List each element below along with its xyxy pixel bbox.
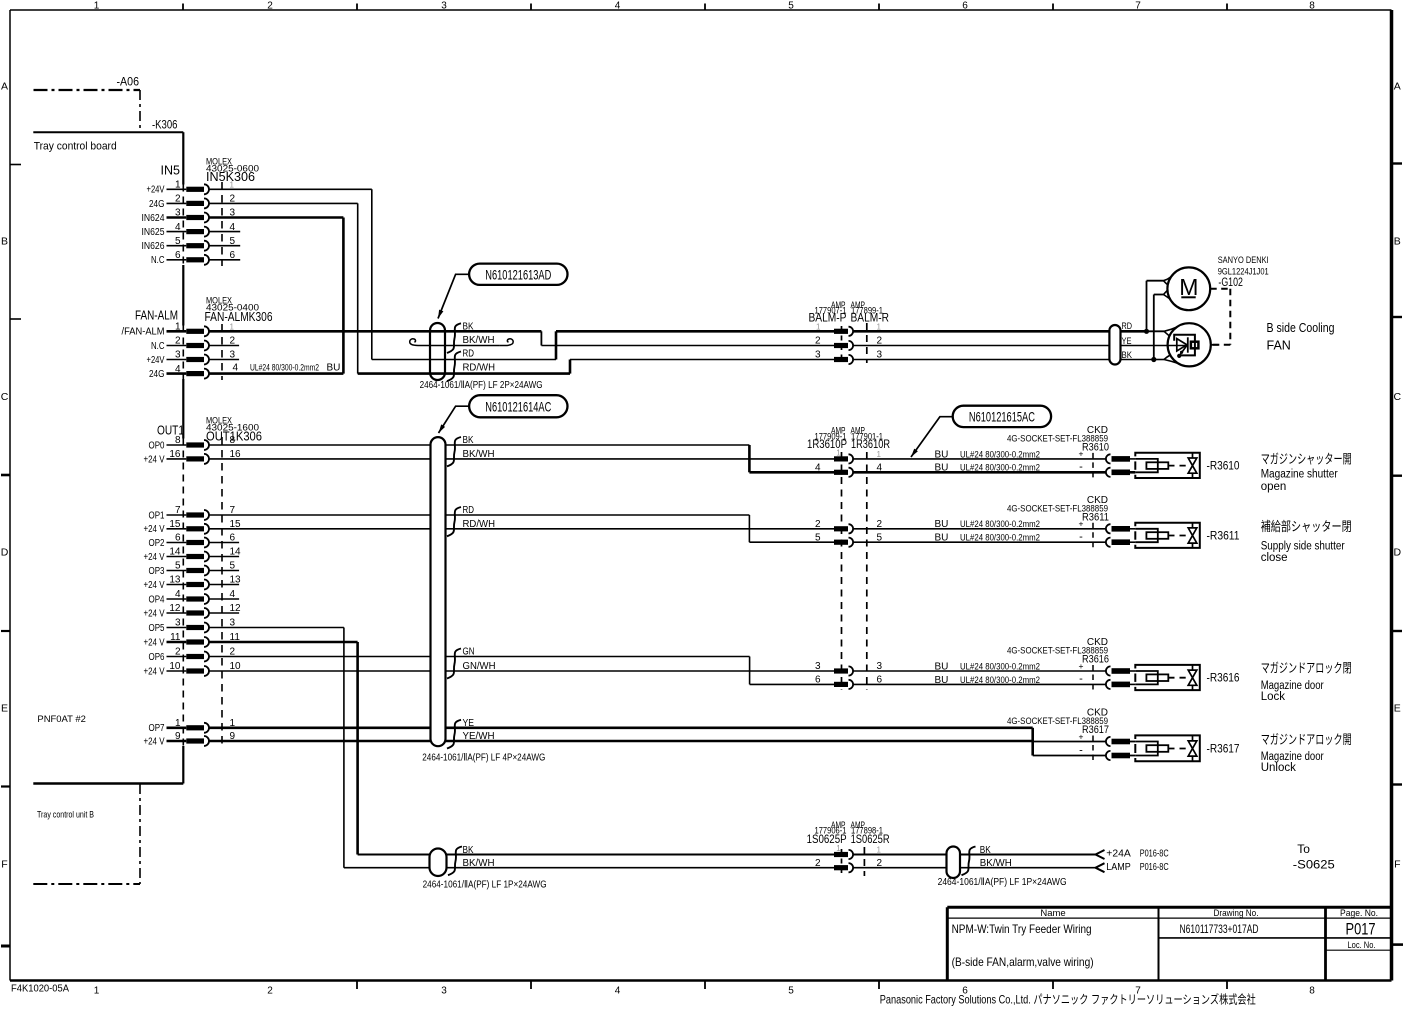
callout leader N610121615AC — [911, 417, 953, 457]
connector FAN-ALM pin 4 24G — [149, 364, 209, 380]
connector OUT1 pin 7 OP1 — [149, 505, 236, 521]
svg-text:-: - — [1079, 673, 1083, 685]
connector FAN-ALM title — [135, 309, 178, 323]
svg-text:+24V: +24V — [147, 355, 165, 366]
svg-text:2464-1061/ⅡA(PF) LF 2P×24AWG: 2464-1061/ⅡA(PF) LF 2P×24AWG — [420, 380, 543, 391]
svg-text:BU: BU — [935, 533, 949, 544]
svg-text:24G: 24G — [149, 199, 165, 210]
unit Tray control unit B boundary (dash-dot) — [33, 784, 140, 884]
connector OUT1K306 labels MOLEX 43025-1600 — [206, 415, 262, 443]
junction dot RD row — [1144, 329, 1149, 334]
wire IN624 from IN5 pin3 — [209, 218, 343, 374]
svg-text:FAN-ALM: FAN-ALM — [135, 309, 178, 323]
valve socket pin R3610 + — [1106, 454, 1135, 463]
label B side Cooling FAN — [1267, 321, 1335, 353]
svg-text:Lock: Lock — [1261, 691, 1286, 703]
svg-text:SANYO DENKI: SANYO DENKI — [1218, 255, 1269, 266]
connector OUT1 pin 8 OP0 — [149, 435, 236, 451]
connector BALM pin body dashes — [841, 326, 843, 362]
svg-text:Page. No.: Page. No. — [1340, 908, 1378, 919]
connector 1S0625 pin 2 — [815, 858, 883, 872]
callout bubble N610121615AC — [953, 406, 1051, 427]
wire color labels 4P cable — [463, 435, 496, 742]
svg-text:IN626: IN626 — [142, 241, 165, 252]
svg-text:P016-8C: P016-8C — [1140, 849, 1169, 860]
cable label 2464-1061 1P left — [423, 880, 547, 891]
label Tray control board — [34, 141, 117, 153]
valve socket pin R3617 + — [1106, 737, 1135, 746]
wire BK/WH to LAMP — [853, 867, 1096, 869]
wire pair mark 2P BK — [447, 323, 461, 353]
svg-text:F4K1020-05A: F4K1020-05A — [11, 984, 69, 995]
frame row letters left — [1, 81, 9, 871]
svg-text:1: 1 — [877, 846, 882, 855]
wire OP0 to R3610 — [209, 445, 834, 472]
wire 24G from IN5 pin2 — [209, 203, 358, 373]
title block Loc. No. — [1348, 940, 1376, 951]
title block headers — [1040, 908, 1378, 919]
svg-text:-S0625: -S0625 — [1293, 858, 1335, 872]
label -K306 — [152, 120, 178, 132]
svg-text:+24 V: +24 V — [144, 736, 165, 747]
svg-text:C: C — [1, 391, 9, 403]
wire R3616 - run — [853, 683, 1106, 685]
connector OUT1 pin 2 OP6 — [149, 647, 236, 663]
cable sheath oval 4P — [431, 437, 446, 746]
connector OUT1 title — [157, 424, 184, 438]
valve socket pin R3611 - — [1106, 538, 1135, 547]
label -R3617 — [1207, 743, 1240, 755]
connector OUT1 pin 1 OP7 — [149, 718, 236, 734]
svg-text:C: C — [1394, 391, 1402, 403]
svg-text:YE: YE — [1122, 336, 1132, 347]
label To -S0625 — [1293, 842, 1335, 872]
svg-text:FAN: FAN — [1267, 338, 1291, 352]
svg-text:-: - — [1079, 461, 1083, 473]
svg-text:8: 8 — [1309, 986, 1315, 997]
svg-text:6: 6 — [815, 675, 821, 686]
svg-text:+24 V: +24 V — [144, 524, 165, 535]
wire +24V10 to R3616 — [209, 670, 834, 672]
cable sheath oval 1P right — [947, 847, 961, 879]
svg-text:4: 4 — [615, 1, 621, 12]
svg-text:UL#24 80/300-0.2mm2: UL#24 80/300-0.2mm2 — [960, 519, 1040, 530]
svg-text:BALM-R: BALM-R — [851, 310, 890, 324]
svg-text:BU: BU — [935, 661, 949, 672]
svg-text:-G102: -G102 — [1218, 277, 1243, 289]
valve socket pin R3616 + — [1106, 666, 1135, 675]
connector IN5 pin 2 24G — [149, 194, 236, 210]
callout bubble N610121614AC — [469, 395, 567, 417]
frame column numbers bottom — [94, 986, 1316, 997]
title block frame — [947, 907, 1393, 980]
svg-text:-R3617: -R3617 — [1207, 743, 1240, 755]
svg-text:P017: P017 — [1346, 921, 1376, 939]
wire 24G RD/WH row — [358, 360, 834, 374]
title block page number P017 — [1346, 921, 1376, 939]
footer Panasonic Factory Solutions — [880, 992, 1256, 1007]
connector OUT1 pin 6 OP2 — [149, 533, 240, 549]
svg-text:-: - — [1079, 744, 1083, 756]
svg-text:Supply side shutter: Supply side shutter — [1261, 541, 1345, 553]
label Tray control unit B — [37, 810, 94, 821]
svg-text:マガジンドアロック閉: マガジンドアロック閉 — [1261, 661, 1352, 676]
wire pair mark 4P YE — [447, 720, 461, 749]
wire RD to fan — [853, 327, 1177, 336]
svg-text:4: 4 — [233, 363, 239, 374]
connector BALM pin 1 — [816, 323, 881, 336]
wire BK row to motor — [1154, 290, 1170, 359]
frame row ticks left — [1, 165, 21, 947]
wire BK to fan — [853, 355, 1178, 363]
connector 1R3610P 1R3610R labels AMP 177909-1 177901-1 — [807, 425, 890, 451]
fan sensor bar — [1187, 337, 1189, 352]
motor M circle -G102 — [1167, 267, 1210, 310]
wire YE to fan — [853, 345, 1187, 347]
wire OP6 to R3616 — [209, 657, 834, 685]
fan sensor circle — [1168, 323, 1211, 366]
svg-text:1: 1 — [230, 181, 235, 190]
cable label 2464-1061 4P — [422, 752, 545, 763]
title block name NPM-W Twin Try Feeder Wiring — [952, 922, 1092, 936]
label SANYO DENKI 9GL1224J1J01 -G102 — [1218, 255, 1269, 289]
svg-text:-K306: -K306 — [152, 120, 178, 132]
wire OP5 down to S0625 — [209, 628, 430, 868]
wire pair mark 1P right — [962, 847, 976, 876]
svg-text:E: E — [1, 703, 8, 715]
solenoid valve R3611 — [1135, 523, 1200, 548]
svg-text:YE: YE — [463, 718, 475, 729]
svg-text:3: 3 — [815, 661, 821, 672]
svg-text:Tray control board: Tray control board — [34, 141, 117, 153]
label -A06 — [117, 77, 140, 89]
svg-text:Panasonic Factory Solutions Co: Panasonic Factory Solutions Co.,Ltd. パナソ… — [880, 992, 1256, 1007]
fan sensor inner frame — [1174, 335, 1195, 356]
svg-text:BU: BU — [935, 463, 949, 474]
svg-text:Magazine shutter: Magazine shutter — [1261, 469, 1338, 481]
svg-text:3: 3 — [441, 986, 447, 997]
connector 1R3610 pin 1 — [834, 449, 882, 464]
svg-text:2464-1061/ⅡA(PF) LF 1P×24AWG: 2464-1061/ⅡA(PF) LF 1P×24AWG — [938, 877, 1067, 888]
svg-text:1: 1 — [816, 323, 821, 332]
connector 1S0625 pin 1 — [834, 844, 882, 859]
cable sheath oval 1P left — [430, 849, 447, 877]
svg-text:UL#24 80/300-0.2mm2: UL#24 80/300-0.2mm2 — [960, 449, 1040, 460]
frame column ticks top — [183, 4, 1227, 11]
title block drawing number N610117733+017AD — [1180, 922, 1259, 936]
motor M letter — [1179, 274, 1198, 300]
svg-text:BK/WH: BK/WH — [463, 335, 495, 346]
wire OP1 to R3611 — [209, 515, 834, 542]
svg-text:1: 1 — [94, 986, 100, 997]
solenoid valve R3617 — [1135, 735, 1200, 761]
fan sensor arrow contact — [1177, 339, 1187, 357]
svg-text:RD: RD — [463, 505, 475, 516]
svg-text:R3611: R3611 — [1082, 511, 1109, 523]
svg-text:BU: BU — [327, 363, 341, 374]
svg-text:OP2: OP2 — [149, 538, 165, 549]
svg-text:3: 3 — [815, 350, 821, 361]
solenoid valve R3616 — [1135, 665, 1200, 690]
connector OUT1 pin 16 +24 V — [144, 449, 242, 465]
labels valve R3616 wires — [935, 661, 1084, 686]
svg-text:B: B — [1394, 236, 1401, 248]
connector IN5 title — [161, 163, 181, 177]
fan sensor terminal square — [1191, 342, 1199, 349]
svg-text:LAMP: LAMP — [1106, 862, 1131, 873]
svg-text:1: 1 — [836, 844, 841, 853]
svg-text:RD/WH: RD/WH — [463, 519, 496, 530]
connector OUT1 pin 13 +24 V — [144, 575, 242, 591]
svg-text:+24 V: +24 V — [144, 454, 165, 465]
cable sheath oval fan — [1109, 325, 1120, 365]
wire pair mark 4P RD — [447, 507, 461, 536]
svg-text:UL#24 80/300-0.2mm2: UL#24 80/300-0.2mm2 — [250, 363, 319, 374]
svg-text:-: - — [1079, 531, 1083, 543]
svg-text:1: 1 — [94, 1, 100, 12]
svg-text:BALM-P: BALM-P — [809, 310, 847, 324]
wire color labels 1P left — [463, 845, 495, 869]
connector OUT1 body dashed boundary — [221, 437, 223, 747]
fan output stub dashed — [1211, 344, 1219, 346]
svg-text:+24 V: +24 V — [144, 608, 165, 619]
label 4 UL#24 80/300-0.2mm2 BU on FAN-ALM pin4 — [233, 363, 341, 374]
callout leader N610121614AC — [439, 406, 470, 433]
connector OUT1 pin 9 +24 V — [144, 731, 236, 747]
svg-text:1: 1 — [877, 450, 882, 459]
connector FAN-ALMK306 labels MOLEX 43025-0400 — [205, 295, 273, 324]
connector OUT1 pin 4 OP4 — [149, 589, 240, 605]
svg-text:UL#24 80/300-0.2mm2: UL#24 80/300-0.2mm2 — [960, 463, 1040, 474]
svg-text:1R3610P: 1R3610P — [807, 437, 847, 451]
svg-text:6: 6 — [962, 1, 968, 12]
wire R3616 + run — [853, 670, 1106, 672]
connector 1S0625P 1S0625R labels AMP 177906-1 177898-1 — [807, 820, 890, 846]
junction dot BK row — [1151, 357, 1156, 362]
svg-text:IN625: IN625 — [142, 227, 165, 238]
unit -A06 boundary (dash-dot) — [34, 90, 141, 132]
connector R3610 group body dashes — [841, 452, 843, 690]
svg-text:マガジンシャッター開: マガジンシャッター開 — [1261, 452, 1352, 467]
svg-text:9GL1224J1J01: 9GL1224J1J01 — [1218, 267, 1269, 278]
sheet code F4K1020-05A — [11, 984, 69, 995]
wire +24V9 to R3617 — [209, 740, 1106, 743]
svg-text:E: E — [1394, 703, 1401, 715]
svg-text:OP6: OP6 — [149, 652, 165, 663]
wire pair mark 4P BK — [447, 437, 461, 466]
title block subtitle B-side FAN alarm valve wiring — [952, 955, 1094, 969]
svg-text:RD/WH: RD/WH — [463, 362, 496, 373]
svg-text:N610121614AC: N610121614AC — [485, 398, 551, 414]
cable sheath oval 2P — [430, 323, 445, 380]
connector IN5K306 labels MOLEX 43025-0600 — [206, 156, 259, 184]
connector OUT1 pin 5 OP3 — [149, 561, 240, 577]
connector OUT1 pin 15 +24 V — [144, 519, 242, 535]
connector FAN-ALM pin 1 /FAN-ALM — [122, 322, 235, 338]
svg-text:close: close — [1261, 552, 1288, 564]
svg-text:Loc. No.: Loc. No. — [1348, 940, 1376, 951]
svg-text:4: 4 — [815, 463, 821, 474]
svg-text:A: A — [1, 81, 8, 93]
svg-text:24G: 24G — [149, 369, 165, 380]
label -R3610 — [1207, 460, 1240, 472]
connector FAN-ALM body dashed boundary — [221, 324, 223, 380]
svg-text:N610121613AD: N610121613AD — [485, 266, 551, 282]
wire FAN-ALM pin4 to IN624 junction — [209, 372, 343, 375]
connector FAN-ALM pin 3 +24V — [147, 350, 240, 366]
connector R3610 group R-side dashed boundary — [866, 452, 868, 690]
svg-text:GN: GN — [463, 647, 475, 658]
connector IN5 body dashed boundary — [221, 182, 223, 266]
svg-text:RD: RD — [1122, 321, 1133, 332]
connector BALM pin 3 — [815, 350, 883, 364]
svg-text:/FAN-ALM: /FAN-ALM — [122, 327, 165, 338]
wire pair mark 4P GN — [447, 649, 461, 679]
solenoid valve R3610 — [1135, 453, 1200, 478]
svg-text:N610121615AC: N610121615AC — [969, 408, 1035, 424]
svg-text:UL#24 80/300-0.2mm2: UL#24 80/300-0.2mm2 — [960, 675, 1040, 686]
wire +24V RD row to BALM — [430, 331, 834, 359]
svg-text:-R3616: -R3616 — [1207, 673, 1240, 685]
labels valve R3610 wires — [935, 449, 1084, 474]
wire RD row to motor — [1147, 277, 1172, 332]
connector IN5 pin 3 IN624 — [142, 208, 236, 224]
svg-text:RD: RD — [463, 349, 475, 360]
svg-text:N.C: N.C — [151, 255, 165, 266]
svg-text:Unlock: Unlock — [1261, 762, 1296, 774]
svg-text:UL#24 80/300-0.2mm2: UL#24 80/300-0.2mm2 — [960, 661, 1040, 672]
svg-text:To: To — [1297, 842, 1310, 856]
svg-text:+24 V: +24 V — [144, 552, 165, 563]
wire +24V16 to R3610 — [209, 458, 834, 460]
wire BK/WH unconnected stub with curled ends — [410, 339, 514, 346]
callout leader N610121613AD — [438, 274, 469, 318]
wire +24V15 to R3611 — [209, 528, 834, 530]
svg-text:BK: BK — [980, 845, 991, 856]
svg-text:F: F — [1394, 859, 1400, 871]
wire color labels 2P cable — [463, 322, 496, 374]
svg-text:R3610: R3610 — [1082, 442, 1109, 454]
svg-text:+24V: +24V — [147, 185, 165, 196]
svg-text:BK/WH: BK/WH — [980, 858, 1012, 869]
valve socket pin R3610 - — [1106, 468, 1135, 477]
connector 1R3610 pin 6 — [815, 675, 883, 689]
svg-text:YE/WH: YE/WH — [463, 731, 495, 742]
svg-text:5: 5 — [815, 532, 821, 543]
svg-text:-R3610: -R3610 — [1207, 460, 1240, 472]
svg-text:BK: BK — [463, 322, 474, 333]
frame row ticks right — [1392, 164, 1403, 945]
frame column ticks bottom — [357, 981, 1227, 990]
connector OUT1 pin 14 +24 V — [144, 547, 242, 563]
valve socket pin R3616 - — [1106, 680, 1135, 689]
svg-text:N610117733+017AD: N610117733+017AD — [1180, 922, 1259, 936]
svg-text:R3617: R3617 — [1082, 724, 1109, 736]
board edge K306 right side — [182, 132, 184, 783]
callout bubble N610121613AD — [469, 264, 567, 285]
svg-text:7: 7 — [1135, 1, 1141, 12]
off-page arrow +24A — [1096, 850, 1105, 859]
label -R3611 — [1207, 530, 1240, 542]
svg-text:BK/WH: BK/WH — [463, 449, 495, 460]
svg-text:BK: BK — [463, 435, 474, 446]
connector IN5 pin 1 +24V — [147, 180, 235, 196]
svg-text:OP5: OP5 — [149, 623, 165, 634]
svg-text:補給部シャッター閉: 補給部シャッター閉 — [1261, 519, 1352, 534]
svg-text:P016-8C: P016-8C — [1140, 862, 1169, 873]
label Magazine door Lock — [1261, 661, 1352, 704]
svg-text:Tray control unit B: Tray control unit B — [37, 810, 94, 821]
connector IN5 pin 6 N.C — [151, 250, 240, 266]
labels valve R3611 wires — [935, 519, 1084, 544]
svg-text:NPM-W:Twin Try Feeder Wiring: NPM-W:Twin Try Feeder Wiring — [952, 922, 1092, 936]
valve socket pin R3617 - — [1106, 751, 1135, 760]
wire +24V11 down to S0625 — [209, 642, 430, 855]
label Supply side shutter close — [1261, 519, 1352, 564]
cable label 2464-1061 2P — [420, 380, 543, 391]
svg-text:F: F — [1, 859, 7, 871]
svg-text:(B-side FAN,alarm,valve wiring: (B-side FAN,alarm,valve wiring) — [952, 955, 1094, 969]
connector FAN-ALM pin 2 N.C — [151, 336, 239, 352]
svg-text:OP3: OP3 — [149, 566, 165, 577]
svg-text:+24 V: +24 V — [144, 580, 165, 591]
connector 1R3610 pin 3 — [815, 661, 883, 675]
svg-text:BU: BU — [935, 519, 949, 530]
svg-text:+24A: +24A — [1106, 849, 1131, 860]
wire /FAN-ALM BK row — [209, 331, 834, 345]
wire BK to +24A — [853, 854, 1096, 856]
svg-text:-R3611: -R3611 — [1207, 530, 1240, 542]
wire R3610 - run — [853, 471, 1106, 474]
off-page arrow LAMP — [1096, 863, 1105, 872]
connector 1S0625 pin body dashes — [841, 849, 843, 873]
svg-text:1S0625R: 1S0625R — [851, 832, 890, 846]
svg-text:OP4: OP4 — [149, 594, 165, 605]
connector 1R3610 pin 5 — [815, 532, 883, 546]
wire BK row to 1S0625P — [447, 854, 835, 856]
wire pair mark 1P left — [448, 847, 462, 876]
board K306 bottom edge — [33, 782, 183, 785]
label Magazine door Unlock — [1261, 732, 1352, 774]
connector BALM pin 2 — [815, 336, 883, 350]
frame row letters right — [1394, 81, 1402, 871]
connector IN5 pin 4 IN625 — [142, 222, 241, 238]
svg-text:GN/WH: GN/WH — [463, 661, 496, 672]
svg-text:8: 8 — [1309, 1, 1315, 12]
svg-text:+24 V: +24 V — [144, 637, 165, 648]
svg-text:IN624: IN624 — [142, 213, 165, 224]
svg-text:A: A — [1394, 81, 1401, 93]
wire OP7 to R3617 — [209, 728, 1106, 756]
connector BALM-P BALM-R labels AMP 177907-1 177899-1 — [809, 300, 890, 325]
frame column numbers top — [94, 1, 1316, 12]
svg-text:2464-1061/ⅡA(PF) LF 1P×24AWG: 2464-1061/ⅡA(PF) LF 1P×24AWG — [423, 880, 547, 891]
svg-text:D: D — [1394, 547, 1402, 559]
svg-text:IN5: IN5 — [161, 163, 181, 177]
labels +24A LAMP P016-8C — [1106, 849, 1168, 873]
label Magazine shutter open — [1261, 452, 1352, 494]
wire R3611 - run — [853, 541, 1106, 543]
board -K306 outline — [33, 131, 183, 133]
svg-text:OP1: OP1 — [149, 510, 165, 521]
svg-text:OP0: OP0 — [149, 440, 165, 451]
svg-text:+24 V: +24 V — [144, 666, 165, 677]
svg-text:Name: Name — [1040, 908, 1065, 919]
connector 1R3610 pin 4 — [815, 463, 883, 477]
svg-text:R3616: R3616 — [1082, 654, 1109, 666]
svg-text:1: 1 — [836, 449, 841, 458]
svg-text:B: B — [1, 236, 8, 248]
